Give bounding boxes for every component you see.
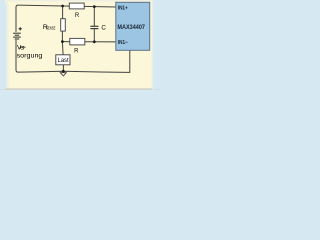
ground symbol (open triangle)	[60, 73, 66, 76]
wire middle rail: node to chip IN1-	[62, 41, 116, 43]
svg-text:Last: Last	[58, 57, 69, 64]
load box Last	[56, 55, 70, 65]
chip MAX34407	[116, 2, 150, 50]
left edge soft gradient	[5, 0, 10, 90]
junction node: middle rail / capacitor branch	[93, 40, 96, 43]
svg-text:sorgung: sorgung	[17, 52, 43, 59]
bottom edge strip	[5, 88, 152, 90]
wire RSENSE bottom to middle node to Last box	[61, 31, 64, 55]
junction node: middle rail / RSENSE-Last branch	[61, 40, 64, 43]
junction node: top rail / capacitor branch	[93, 5, 96, 8]
yellow panel	[9, 0, 152, 90]
svg-text:IN1+: IN1+	[118, 5, 128, 11]
right edge soft gradient	[151, 0, 154, 90]
svg-text:R: R	[75, 13, 80, 19]
svg-text:MAX34407: MAX34407	[117, 25, 145, 31]
svg-text:C: C	[101, 25, 106, 32]
junction node: top rail / RSENSE branch	[61, 5, 64, 8]
junction node: bottom rail / ground	[62, 70, 65, 73]
outer blue background	[0, 0, 160, 90]
wire left rail bottom + bottom rail + riser to chip GND pin	[16, 40, 130, 73]
wire Last box bottom to ground node	[62, 65, 64, 73]
wire capacitor bottom branch	[93, 29, 95, 42]
resistor RSENSE (vertical)	[61, 19, 66, 31]
capacitor C plates	[90, 26, 98, 28]
wire top rail: source to chip IN1+ (slight scan tilt)	[16, 5, 116, 32]
wire RSENSE branch vertical from top rail	[62, 6, 64, 19]
resistor R2 (middle)	[70, 38, 85, 45]
wire capacitor top branch	[93, 7, 95, 27]
svg-text:R: R	[74, 48, 79, 54]
battery (voltage source) cell plates	[13, 33, 21, 39]
svg-text:Ver-: Ver-	[17, 45, 26, 52]
svg-text:IN1−: IN1−	[118, 40, 128, 46]
top edge light strip	[5, 0, 152, 3]
svg-text:SENSE: SENSE	[46, 25, 56, 31]
resistor R1 (top)	[69, 3, 84, 9]
plus sign	[19, 27, 22, 30]
